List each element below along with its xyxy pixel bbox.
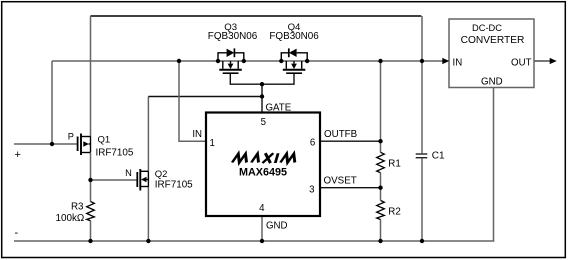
svg-text:GND: GND	[266, 221, 288, 232]
wire: Q2 drain lead up	[147, 97, 149, 172]
junction dot OVSET / R1-R2	[378, 186, 382, 190]
svg-text:OUT: OUT	[511, 57, 532, 68]
wire: Q2 drain to GATE node horizontal	[148, 96, 262, 98]
junction dot main rail / C1 branch	[420, 59, 424, 63]
wire: DC-DC GND riser	[493, 88, 495, 242]
svg-text:Q1: Q1	[98, 134, 111, 145]
junction dot Q4 left	[279, 59, 283, 63]
svg-text:GND: GND	[481, 77, 503, 88]
wire: main horizontal rail to DC-DC IN	[52, 60, 444, 62]
transistor Q2 IRF7105 N-channel	[137, 169, 148, 191]
junction dot ground / R2	[378, 239, 382, 243]
wire: Q1 drain lead up to top rail	[90, 16, 92, 137]
svg-text:FQB30N06: FQB30N06	[269, 31, 319, 42]
svg-text:4: 4	[259, 203, 265, 214]
svg-text:OVSET: OVSET	[324, 176, 357, 187]
wire: R1/R2 divider vertical (between)	[380, 173, 382, 201]
svg-text:+: +	[15, 149, 21, 161]
junction dot ground / Q2 source	[146, 239, 150, 243]
wire: riser from + lead up to main rail	[51, 61, 53, 144]
svg-text:DC-DC: DC-DC	[472, 23, 502, 33]
DC-DC converter box	[449, 19, 534, 88]
junction dot Q2 gate tap	[88, 178, 92, 182]
svg-text:R1: R1	[388, 158, 401, 169]
junction dot gate join	[260, 82, 264, 86]
resistor R2	[377, 200, 385, 219]
svg-text:5: 5	[261, 117, 266, 128]
junction dot Q3 left	[216, 59, 220, 63]
junction dot ground / IC GND	[260, 239, 264, 243]
svg-text:R2: R2	[388, 206, 401, 217]
resistor R3	[87, 202, 95, 221]
junction dot OUTFB / R1	[378, 139, 382, 143]
svg-text:IRF7105: IRF7105	[96, 148, 134, 159]
svg-text:N: N	[125, 168, 132, 178]
svg-text:100kΩ: 100kΩ	[56, 213, 85, 224]
transistor Q3 FQB30N06	[218, 48, 244, 73]
arrowhead DC-DC OUT	[550, 58, 557, 64]
wire: top bypass rail (Q1 drain to C1 node)	[91, 15, 422, 17]
wire: C1 branch vertical lower	[421, 158, 423, 241]
capacitor C1	[416, 154, 428, 158]
wire: Q1 source lead down to R3	[90, 153, 92, 202]
junction dot main rail / pin1 riser	[177, 59, 181, 63]
svg-text:IRF7105: IRF7105	[155, 180, 193, 191]
wire: R2 bottom lead	[380, 220, 382, 242]
wire: pin 6 OUTFB stub to divider	[320, 140, 381, 142]
junction dot ground / R3	[88, 239, 92, 243]
svg-text:1: 1	[210, 138, 215, 149]
wire: ground rail	[14, 240, 494, 242]
svg-text:Q2: Q2	[155, 169, 168, 180]
resistor R1	[377, 152, 385, 172]
wire: pin 3 OVSET stub to divider	[320, 187, 381, 189]
arrowhead into DC-DC IN	[442, 58, 449, 64]
logo MAXIM	[232, 153, 298, 163]
svg-text:6: 6	[310, 138, 315, 149]
svg-text:CONVERTER: CONVERTER	[461, 35, 525, 46]
svg-text:-: -	[15, 227, 19, 239]
svg-text:FQB30N06: FQB30N06	[208, 31, 258, 42]
svg-text:IN: IN	[192, 129, 202, 140]
wire: positive input lead	[14, 143, 77, 145]
wire: riser from main rail down to IC pin 1	[179, 61, 206, 141]
op-amp U1 MAX6495 IC box	[206, 113, 320, 217]
svg-text:IN: IN	[453, 57, 463, 68]
junction dot ground / C1	[420, 239, 424, 243]
wire: GATE vertical into IC pin 5	[261, 84, 263, 112]
wire: R1/R2 divider vertical (upper)	[380, 61, 382, 152]
transistor Q1 IRF7105 P-channel	[78, 134, 91, 156]
svg-text:OUTFB: OUTFB	[324, 129, 358, 140]
svg-text:P: P	[68, 132, 74, 142]
junction dot Q4 right	[305, 59, 309, 63]
junction dot Q2 drain / gate line	[260, 94, 264, 98]
svg-text:GATE: GATE	[266, 102, 292, 113]
transistor Q4 FQB30N06	[281, 48, 307, 73]
wire: C1 branch vertical upper	[421, 16, 423, 153]
svg-text:MAX6495: MAX6495	[239, 167, 287, 179]
junction dot Q3 right	[242, 59, 246, 63]
svg-text:C1: C1	[432, 151, 445, 162]
wire: Q2 gate lead	[91, 179, 138, 181]
wire: R3 bottom lead to ground rail	[90, 221, 92, 241]
wire: DC-DC OUT lead	[534, 60, 550, 62]
junction dot node +IN	[50, 142, 54, 146]
svg-text:R3: R3	[71, 202, 84, 213]
wire: gate join rail of Q3/Q4	[230, 73, 294, 84]
wire: Q2 source lead down to ground rail	[147, 187, 149, 242]
svg-text:3: 3	[309, 185, 314, 196]
wire: IC GND pin 4 riser to ground rail	[261, 216, 263, 241]
junction dot main rail / divider	[378, 59, 382, 63]
